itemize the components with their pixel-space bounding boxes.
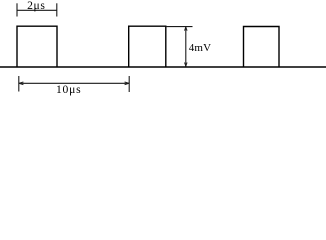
svg-text:2μs: 2μs <box>27 0 45 12</box>
svg-text:4mV: 4mV <box>189 42 211 54</box>
svg-text:10μs: 10μs <box>56 83 81 96</box>
